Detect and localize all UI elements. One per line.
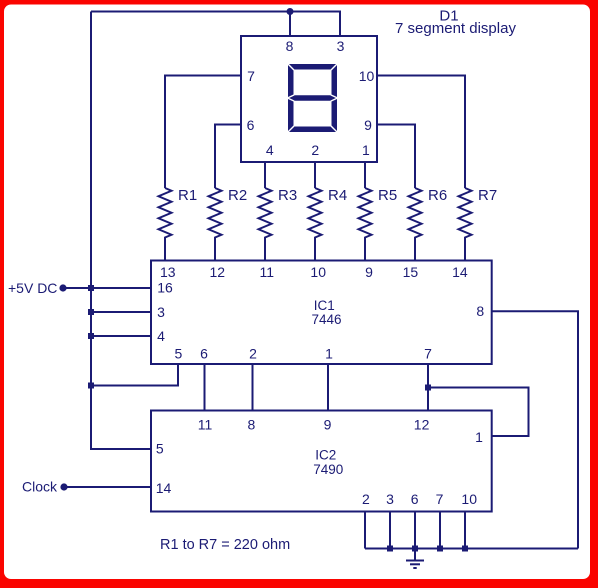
svg-text:7490: 7490: [313, 462, 343, 477]
resistor R5: [359, 188, 372, 261]
wire: display pin 7 to R1: [165, 76, 241, 189]
svg-text:R3: R3: [278, 187, 297, 204]
junction node: IC1 pin 7 branch: [425, 385, 431, 391]
wire: +5V top rail to display pin 3: [91, 12, 340, 37]
svg-text:14: 14: [452, 264, 468, 280]
svg-text:3: 3: [337, 38, 345, 54]
digit 8 body: [288, 64, 337, 132]
svg-text:3: 3: [386, 491, 394, 507]
wire: IC1 pin 8 to ground bus: [492, 311, 578, 548]
wire: IC2 pin 10 to bus: [464, 512, 466, 549]
junction node: bus / pin 6: [412, 546, 418, 552]
IC2 7490: [151, 411, 492, 512]
svg-text:16: 16: [157, 280, 173, 296]
svg-text:2: 2: [311, 142, 319, 158]
svg-text:10: 10: [310, 264, 326, 280]
svg-text:+5V DC: +5V DC: [8, 280, 57, 296]
svg-text:8: 8: [248, 417, 256, 433]
wire: IC2 pin 3 to bus: [389, 512, 391, 549]
svg-text:3: 3: [157, 304, 165, 320]
resistor R1: [159, 188, 172, 261]
svg-text:10: 10: [461, 491, 477, 507]
junction node: rail / pin 3: [88, 309, 94, 315]
svg-text:7446: 7446: [311, 312, 341, 327]
svg-text:9: 9: [365, 264, 373, 280]
+5V DC terminal: [8, 280, 67, 296]
svg-text:R1 to R7 = 220 ohm: R1 to R7 = 220 ohm: [160, 537, 290, 553]
resistor R4: [309, 188, 322, 261]
svg-text:7 segment display: 7 segment display: [395, 20, 516, 37]
svg-text:IC2: IC2: [315, 447, 336, 462]
svg-text:14: 14: [156, 480, 172, 496]
wire: IC2 pin 6 to bus: [414, 512, 416, 549]
svg-text:5: 5: [156, 440, 164, 456]
wire: rail to IC1 pin 3: [91, 311, 151, 313]
svg-text:8: 8: [476, 303, 484, 319]
junction node: rail / pin 4: [88, 333, 94, 339]
svg-text:11: 11: [198, 417, 213, 433]
svg-text:4: 4: [157, 328, 165, 344]
svg-text:7: 7: [247, 68, 255, 84]
wire: IC1 pin 2 to IC2 pin 8: [252, 364, 254, 411]
svg-text:15: 15: [403, 264, 419, 280]
wire: display pin 1 to R5: [364, 162, 366, 188]
wire: Clock terminal to IC2 pin 14: [64, 486, 151, 488]
svg-text:R2: R2: [228, 187, 247, 204]
svg-text:R1: R1: [178, 187, 197, 204]
wire: ground bus: [365, 548, 578, 550]
svg-text:2: 2: [249, 346, 257, 362]
svg-text:9: 9: [364, 117, 372, 133]
wire: +5V left rail down to IC2 pin 5: [91, 12, 151, 450]
svg-text:2: 2: [362, 491, 370, 507]
junction node: bus / pin 10: [462, 546, 468, 552]
svg-text:6: 6: [200, 346, 208, 362]
svg-text:R4: R4: [328, 187, 347, 204]
wire: +5V DC terminal to IC1 pin 16: [63, 287, 151, 289]
resistor R2: [209, 188, 222, 261]
wire: IC1 pin 1 to IC2 pin 9: [327, 364, 329, 411]
svg-text:7: 7: [424, 346, 432, 362]
junction node: rail / pin 5: [88, 383, 94, 389]
svg-text:9: 9: [324, 417, 332, 433]
wire: IC2 pin 2 to bus: [364, 512, 366, 549]
svg-text:7: 7: [436, 491, 444, 507]
svg-text:1: 1: [325, 346, 333, 362]
junction node: bus / pin 7: [437, 546, 443, 552]
svg-text:6: 6: [411, 491, 419, 507]
wire: IC1 pin 6 to IC2 pin 11: [204, 364, 206, 411]
wire: display pin 4 to R3: [264, 162, 266, 188]
wire: IC2 pin 7 to bus: [439, 512, 441, 549]
svg-text:13: 13: [160, 264, 176, 280]
wire: display pin 2 to R4: [314, 162, 316, 188]
svg-text:Clock: Clock: [22, 479, 58, 495]
svg-text:1: 1: [362, 142, 370, 158]
wire: display pin 10 to R7: [377, 76, 465, 189]
svg-text:4: 4: [266, 142, 274, 158]
7 segment display D1: [241, 36, 377, 162]
wire: IC1 pin 7 to IC2 pin 1: [428, 388, 529, 437]
svg-text:12: 12: [414, 417, 430, 433]
junction node: bus / pin 3: [387, 546, 393, 552]
junction node: top rail / pin 8: [287, 8, 294, 15]
junction node: rail / pin 16: [88, 285, 94, 291]
svg-text:1: 1: [475, 429, 483, 445]
IC1 7446: [151, 261, 492, 365]
ground: [406, 549, 424, 569]
wire: display pin 8 stub to top rail: [289, 12, 291, 37]
svg-text:10: 10: [359, 68, 375, 84]
wire: rail to IC1 pin 4: [91, 335, 151, 337]
resistor R3: [259, 188, 272, 261]
svg-text:R6: R6: [428, 187, 447, 204]
wire: IC1 pin 7 to IC2 pin 12: [427, 364, 429, 411]
svg-text:R7: R7: [478, 187, 497, 204]
resistor R7: [459, 188, 472, 261]
svg-text:5: 5: [175, 346, 183, 362]
svg-text:8: 8: [286, 38, 294, 54]
svg-text:11: 11: [260, 264, 275, 280]
svg-text:6: 6: [247, 117, 255, 133]
wire: display pin 9 to R6: [377, 125, 415, 189]
svg-text:R5: R5: [378, 187, 397, 204]
wire: display pin 6 to R2: [215, 125, 241, 189]
digit segment mitre cuts: [288, 64, 338, 133]
svg-text:12: 12: [210, 264, 226, 280]
resistor R6: [409, 188, 422, 261]
Clock terminal: [22, 479, 68, 495]
wire: rail to IC1 pin 5: [91, 364, 178, 386]
